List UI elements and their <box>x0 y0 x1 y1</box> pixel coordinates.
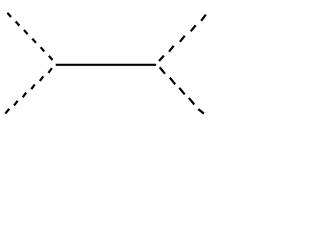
external leg lower-right (dashed scalar line) <box>160 67 204 113</box>
external leg upper-right (dashed scalar line) <box>159 15 206 62</box>
propagator (solid internal scalar line between the two vertices) <box>56 64 156 66</box>
external leg upper-left (dashed scalar line) <box>7 13 52 60</box>
external leg lower-left (dashed scalar line) <box>5 68 52 113</box>
